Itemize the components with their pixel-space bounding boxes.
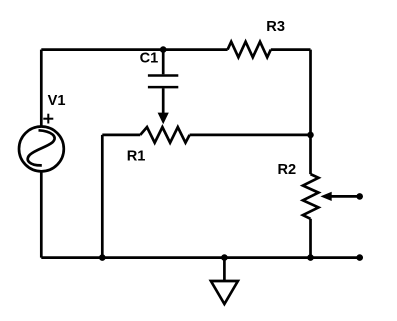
wire left middle vertical [101, 135, 104, 258]
node terminal dot (wiper output) [356, 193, 363, 200]
node junction dot (left vertical / bottom rail) [99, 254, 106, 261]
C1 wiper arrowhead [158, 113, 169, 125]
potentiometer R1 body [140, 127, 189, 143]
svg-text:V1: V1 [48, 93, 66, 109]
ground symbol triangle [211, 281, 238, 304]
svg-text:R3: R3 [266, 19, 285, 35]
node junction dot (middle wire / right vertical) [307, 132, 314, 139]
potentiometer R2 body [303, 174, 319, 219]
capacitor C1 bottom plate [148, 86, 178, 89]
wire right vertical (corner to R2 top) [309, 50, 312, 175]
resistor R3 [228, 42, 271, 58]
node junction dot (top rail / C1) [160, 46, 167, 53]
node terminal dot (bottom right output) [356, 254, 363, 261]
R2 wiper shaft [331, 195, 360, 198]
voltage source V1 sine wave [28, 130, 55, 165]
wire middle right (R1 to right vertical) [190, 134, 311, 137]
V1 plus sign [43, 114, 53, 124]
wire C1 top lead [162, 50, 165, 75]
R2 wiper arrowhead [320, 192, 331, 201]
svg-text:C1: C1 [140, 51, 159, 67]
node junction dot (right vertical / bottom rail) [307, 254, 314, 261]
wire C1 to R1 wiper shaft [162, 88, 165, 113]
wire V1 bottom lead [40, 171, 43, 257]
voltage source V1 circle [19, 126, 64, 171]
svg-text:R1: R1 [127, 149, 146, 165]
svg-text:R2: R2 [278, 162, 297, 178]
wire top rail left (V1 top to R3) [41, 48, 227, 51]
wire middle left (to R1) [102, 134, 140, 137]
wire top rail right (R3 to right corner) [271, 48, 311, 51]
ground stub wire [223, 258, 226, 281]
node junction dot (ground / bottom rail) [221, 254, 228, 261]
wire R2 bottom to bottom rail [309, 219, 312, 258]
wire V1 top lead [40, 50, 43, 127]
wire bottom rail [41, 256, 359, 259]
capacitor C1 top plate [148, 74, 178, 77]
